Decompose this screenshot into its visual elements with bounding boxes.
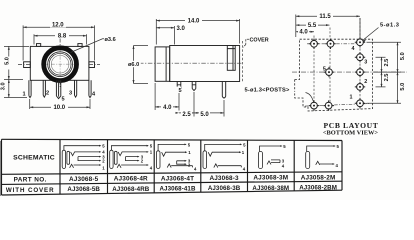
pcb hole top-left (309, 39, 319, 49)
dim 5.5 arrows (296, 24, 330, 26)
svg-text:3: 3 (69, 91, 72, 97)
dim 11.5 lines (296, 15, 360, 38)
dim text 3.0 left (1, 82, 8, 94)
svg-text:ø6.0: ø6.0 (128, 62, 139, 68)
cover tab (227, 46, 235, 71)
schematic cell 5 terminals (282, 144, 287, 169)
dim 11.5 arrows (296, 15, 360, 17)
dim 12.0 lines (23, 25, 94, 60)
dim 5.0 arrows (8, 46, 10, 79)
svg-text:ø3.6: ø3.6 (105, 37, 116, 43)
pcb bottom row centerline (305, 104, 369, 107)
side pin long (222, 82, 225, 99)
dim 3.0 arrows (8, 80, 10, 98)
schematic cell 5 jack barrel (259, 151, 263, 168)
left ear (24, 62, 31, 68)
centerline vertical (59, 39, 61, 89)
pcb hole 3 (355, 52, 365, 62)
inner circle 3 (51, 55, 69, 73)
leader dia3.6 (71, 39, 105, 53)
table vline 0 (1, 139, 3, 195)
dim text dia6.0 (127, 61, 141, 68)
inner circle 1 (48, 52, 73, 77)
schematic cell 2 inner contact (114, 151, 117, 164)
svg-text:8.8: 8.8 (58, 34, 67, 40)
table vline 4 (200, 140, 202, 192)
front view body (30, 46, 89, 80)
pcb hole 1 (355, 98, 365, 108)
svg-text:AJ3068-2BM: AJ3068-2BM (299, 185, 337, 192)
inner circle 2 (49, 53, 71, 75)
svg-text:3.0: 3.0 (1, 82, 7, 90)
svg-text:4: 4 (352, 46, 355, 52)
side pin number 5 (176, 87, 182, 94)
dim text 14.0 (185, 17, 202, 25)
schematic cell 1 terminals (102, 144, 105, 171)
side view main body (170, 46, 240, 82)
dim 4.0 bottom lines (155, 83, 179, 111)
bushing inner line (165, 47, 167, 81)
circle centerline vertical (59, 49, 61, 79)
svg-text:AJ3068-4RB: AJ3068-4RB (112, 186, 150, 193)
dim text 2.5 bottom (181, 110, 192, 117)
cover tab inner line (227, 46, 235, 71)
table vline 2 (107, 140, 109, 194)
svg-text:AJ3068-5: AJ3068-5 (69, 176, 99, 183)
pcb grid line c (359, 18, 361, 104)
dim 4.0 bottom arrows (155, 106, 179, 108)
schematic cell 2 jack barrel (110, 150, 113, 168)
svg-text:2.5: 2.5 (384, 59, 390, 67)
svg-text:2.5: 2.5 (182, 112, 191, 118)
circle centerline horizontal (44, 63, 77, 65)
leader 5-dia1.3 (363, 28, 379, 41)
svg-text:SCHEMATIC: SCHEMATIC (13, 154, 55, 161)
dim 4.0 pcb arrows (296, 31, 314, 33)
table vline 1 (59, 140, 61, 195)
jack ring (black annulus) (44, 48, 77, 81)
dim 10.0 arrows (30, 106, 90, 108)
dim 8.8 lines (34, 34, 87, 44)
schematic cell 2 wires (111, 146, 147, 168)
side centerline (139, 62, 243, 64)
dim text 5.5 (306, 21, 318, 29)
schematic cell 6 jack barrel (306, 151, 310, 168)
schematic cell 1 jack barrel (62, 150, 65, 168)
schematic cell 1 wire arrows (99, 145, 101, 147)
svg-text:5: 5 (61, 96, 64, 102)
dim 5.0 vertical lines (4, 46, 29, 79)
cover leader (243, 39, 249, 47)
pcb hole 5 (324, 67, 334, 77)
svg-text:12.0: 12.0 (52, 23, 64, 29)
table vline 3 (153, 140, 155, 193)
pin 4 (89, 80, 91, 97)
schematic cell 3 wire arrows (185, 144, 187, 146)
svg-text:5: 5 (179, 88, 182, 94)
dim 12.0 arrows (23, 26, 94, 28)
table sep2 border (2, 181, 343, 184)
svg-text:AJ3068-38M: AJ3068-38M (252, 185, 289, 192)
dim dia6.0 lines (134, 46, 149, 84)
pcb post hole right (323, 100, 334, 110)
side pin 5 (177, 82, 181, 91)
part numbers row (69, 174, 335, 183)
table top border (2, 139, 343, 140)
svg-text:PART NO.: PART NO. (14, 177, 47, 184)
svg-text:5.5: 5.5 (308, 23, 317, 29)
dim 10.0 lines (30, 99, 90, 109)
svg-text:3.0: 3.0 (177, 26, 186, 32)
schematic cell 4 jack barrel (203, 151, 207, 169)
svg-text:2: 2 (46, 91, 49, 97)
pin 2 (43, 80, 45, 97)
svg-text:5.0: 5.0 (400, 52, 406, 60)
svg-text:5: 5 (323, 66, 326, 72)
schematic cell 3 terminals (188, 142, 197, 171)
schematic cell 1 inner contact (67, 151, 70, 164)
dim dia6.0 arrows (133, 46, 135, 84)
schematic cell 3 jack barrel (156, 151, 160, 169)
svg-text:WITH COVER: WITH COVER (6, 187, 55, 194)
svg-text:AJ3068-5B: AJ3068-5B (67, 186, 100, 193)
svg-text:AJ3068-3B: AJ3068-3B (208, 185, 241, 192)
dim text 5.0 right upper (400, 52, 406, 60)
pcb hole top-mid (325, 39, 335, 49)
schematic cell 4 wire arrows (240, 144, 242, 146)
dim text 2.5 right lower (384, 74, 390, 82)
pcb hole center (355, 67, 365, 77)
svg-text:AJ3058-2M: AJ3058-2M (301, 174, 336, 181)
table vline 5 (247, 140, 249, 191)
svg-text:1: 1 (22, 92, 25, 98)
schematic cell 5 wires (260, 146, 282, 164)
svg-text:5-ø1.3: 5-ø1.3 (380, 23, 399, 29)
schematic cell 4 wires (205, 144, 242, 167)
table bottom border (2, 190, 343, 195)
dim 5.5 lines (296, 24, 330, 26)
pcb right dim inner line (374, 57, 402, 87)
dim text 2.5 right upper (384, 59, 390, 67)
dim text 10.0 (51, 103, 68, 111)
schematic cell 2 terminals (141, 144, 153, 171)
dim 3.0 top lines (156, 26, 174, 45)
top tab right (78, 44, 82, 47)
pcb hole 4 (355, 37, 365, 47)
table sep1 border (2, 172, 343, 175)
svg-text:AJ3068-4R: AJ3068-4R (114, 176, 148, 183)
svg-text:4.0: 4.0 (163, 105, 172, 111)
pin 5 (center) (56, 80, 60, 98)
pcb grid line b (329, 28, 331, 106)
svg-text:4.0: 4.0 (299, 30, 308, 36)
table vline 7 (341, 141, 343, 191)
dim 4.0 pcb lines (296, 31, 314, 33)
pin 1 (29, 80, 31, 97)
svg-text:14.0: 14.0 (188, 18, 200, 24)
svg-text:COVER: COVER (250, 38, 269, 44)
dim text 5.0 bottom (199, 110, 210, 117)
pcb grid line a (313, 36, 315, 106)
dim text 8.8 (55, 32, 69, 40)
dim text 4.0 pcb (298, 28, 309, 36)
dim 8.8 arrows (34, 35, 87, 37)
dim text 4.0 bottom (161, 104, 173, 111)
table vline 6 (293, 140, 295, 191)
with cover row (67, 185, 337, 194)
scan edge artifact (0, 141, 1, 196)
dim text 3.0 top (176, 25, 187, 33)
svg-text:2.5: 2.5 (384, 74, 390, 82)
svg-text:AJ3068-3: AJ3068-3 (209, 175, 239, 182)
dim text 5.0 left (4, 57, 12, 70)
dim 3.0 top arrows (156, 27, 174, 29)
dim text 5.0 right lower (400, 83, 406, 91)
svg-text:5.0: 5.0 (200, 112, 209, 118)
side pin mid (192, 82, 196, 91)
dim 5.0 bottom arrows (176, 112, 225, 114)
schematic cell 5 wire arrows (280, 145, 282, 147)
svg-text:AJ3068-4T: AJ3068-4T (161, 175, 194, 182)
schematic cell 4 terminals (242, 142, 246, 171)
schematic cell 6 wire arrows (334, 145, 336, 147)
leader arrowhead (363, 40, 366, 42)
pin 3 (75, 80, 77, 97)
svg-text:10.0: 10.0 (53, 105, 65, 111)
pcb top row centerline (307, 43, 357, 45)
dim 2.5 bottom lines (179, 92, 194, 117)
top tab left (37, 44, 41, 47)
side view bushing (155, 47, 170, 81)
svg-text:11.5: 11.5 (319, 14, 331, 20)
pcb right dim inner arrows (381, 57, 383, 87)
svg-text:3: 3 (364, 60, 367, 66)
dim 5.0 bottom lines (194, 100, 224, 117)
pcb outline dashed (295, 39, 373, 111)
pcb hole 2 (355, 82, 365, 92)
pcb post hole left (309, 100, 319, 110)
schematic cell 6 wires (307, 146, 335, 165)
dim 3.0 vertical lines (4, 80, 27, 98)
schematic cell 1 wires (64, 146, 100, 168)
right ear (89, 62, 95, 68)
svg-text:1: 1 (350, 94, 353, 100)
dim 14.0 arrows (156, 20, 239, 22)
pcb centerline (292, 71, 407, 73)
svg-text:<BOTTOM VIEW>: <BOTTOM VIEW> (323, 130, 379, 137)
centerline horizontal (18, 63, 100, 65)
schematic cell 6 terminals (336, 144, 340, 168)
svg-text:5-ø1.3<POSTS>: 5-ø1.3<POSTS> (245, 88, 290, 94)
svg-text:2: 2 (364, 79, 367, 85)
dim 14.0 lines (156, 19, 239, 45)
schematic cell 2 wire arrows (147, 145, 149, 147)
pcb right dim outer line (367, 42, 402, 103)
dim text 12.0 (50, 21, 66, 29)
posts leader (306, 93, 314, 102)
svg-text:5.0: 5.0 (4, 57, 10, 65)
cover dashed edge (241, 41, 243, 83)
pcb right dim outer arrows (397, 42, 399, 103)
dim text 11.5 (317, 12, 333, 20)
svg-text:5.0: 5.0 (400, 83, 406, 91)
schematic cell 3 wires (158, 144, 192, 167)
SIDE VIEW (139, 41, 243, 98)
svg-text:AJ3068-41B: AJ3068-41B (159, 186, 196, 193)
SCHEMATIC CELLS (62, 146, 100, 169)
svg-text:AJ3068-3M: AJ3068-3M (253, 175, 288, 182)
